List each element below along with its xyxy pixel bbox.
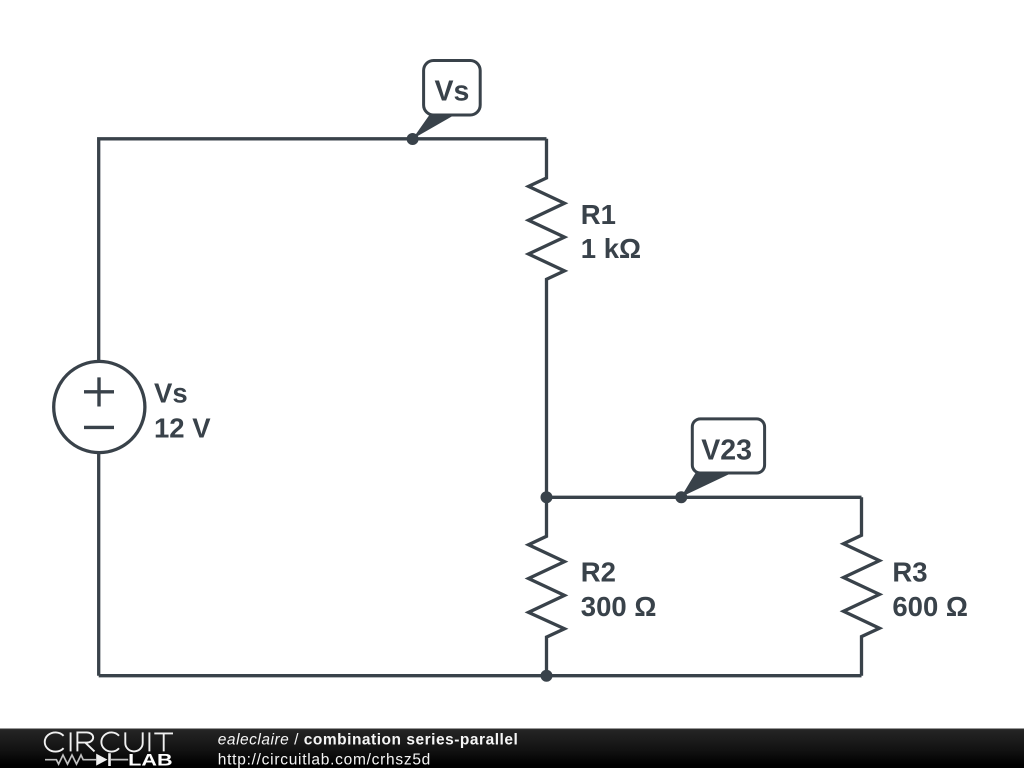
svg-text:600 Ω: 600 Ω — [892, 591, 968, 622]
svg-text:V23: V23 — [701, 435, 752, 467]
resistor R2 — [529, 497, 565, 675]
minus sign — [84, 426, 114, 429]
wire top horizontal — [99, 139, 547, 362]
resistor R1 — [529, 139, 565, 497]
node dot mid-left — [541, 491, 553, 503]
svg-text:ealeclaire / combination serie: ealeclaire / combination series-parallel — [218, 732, 518, 749]
wire left lower — [97, 453, 100, 676]
svg-text:Vs: Vs — [434, 76, 469, 108]
logo squiggle wire — [45, 755, 128, 764]
flag box Vs — [424, 61, 481, 116]
svg-text:12 V: 12 V — [154, 413, 211, 444]
svg-text:300 Ω: 300 Ω — [581, 591, 657, 622]
resistor R3 — [844, 497, 880, 675]
wire bottom horizontal — [99, 674, 862, 677]
flag box V23 — [692, 419, 764, 473]
node dot V23 — [675, 491, 687, 503]
flag tail V23 — [681, 471, 730, 498]
svg-text:R2: R2 — [581, 557, 616, 588]
svg-text:R3: R3 — [892, 557, 927, 588]
node dot Vs — [407, 133, 419, 145]
wire middle horizontal — [547, 496, 862, 499]
svg-text:http://circuitlab.com/crhsz5d: http://circuitlab.com/crhsz5d — [218, 751, 430, 768]
logo CIRCUIT text — [45, 732, 173, 751]
plus sign — [84, 377, 114, 406]
logo diode — [96, 753, 111, 766]
svg-text:Vs: Vs — [154, 377, 188, 408]
voltage source V1 circle — [54, 361, 145, 452]
node dot bottom — [541, 670, 553, 682]
svg-text:1 kΩ: 1 kΩ — [581, 233, 641, 264]
svg-text:R1: R1 — [581, 199, 616, 230]
svg-text:LAB: LAB — [128, 752, 173, 768]
flag tail Vs — [413, 112, 454, 139]
